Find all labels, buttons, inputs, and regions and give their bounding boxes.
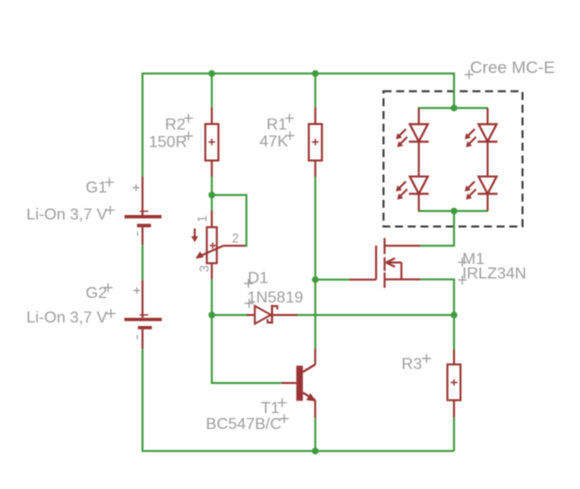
svg-text:D1: D1 xyxy=(248,270,269,287)
svg-text:47K: 47K xyxy=(260,133,289,150)
svg-text:Li-On 3,7 V: Li-On 3,7 V xyxy=(26,310,107,327)
svg-text:R1: R1 xyxy=(267,117,288,134)
svg-text:150R: 150R xyxy=(149,134,187,151)
svg-text:G1: G1 xyxy=(86,180,107,197)
svg-text:1: 1 xyxy=(195,215,209,222)
svg-text:R3: R3 xyxy=(402,356,423,373)
svg-text:Li-On 3,7 V: Li-On 3,7 V xyxy=(26,206,107,223)
svg-text:R2: R2 xyxy=(165,117,186,134)
svg-text:Cree MC-E: Cree MC-E xyxy=(470,58,555,77)
svg-text:1N5819: 1N5819 xyxy=(247,289,303,306)
svg-text:3: 3 xyxy=(198,265,212,272)
svg-text:IRLZ34N: IRLZ34N xyxy=(462,266,526,283)
svg-text:BC547B/C: BC547B/C xyxy=(206,416,282,433)
svg-text:T1: T1 xyxy=(261,400,280,417)
svg-text:G2: G2 xyxy=(86,285,107,302)
svg-text:2: 2 xyxy=(232,232,239,246)
